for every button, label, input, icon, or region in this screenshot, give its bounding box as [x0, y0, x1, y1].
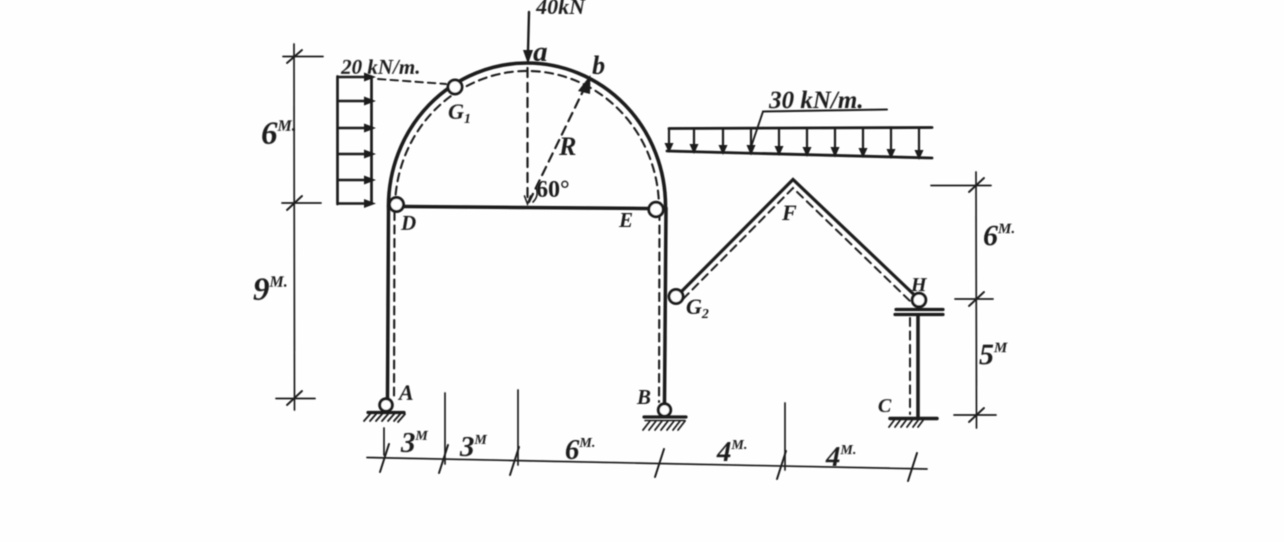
svg-text:E: E [618, 208, 633, 232]
svg-text:4M.: 4M. [825, 441, 856, 473]
svg-text:B: B [636, 385, 651, 409]
svg-text:b: b [592, 51, 605, 80]
svg-text:30 kN/m.: 30 kN/m. [768, 87, 863, 114]
svg-text:6M.: 6M. [983, 219, 1015, 252]
svg-text:a: a [533, 36, 548, 68]
svg-text:3M: 3M [400, 427, 429, 459]
svg-text:H: H [910, 274, 928, 296]
svg-text:F: F [781, 200, 797, 225]
svg-text:G2: G2 [686, 294, 709, 322]
svg-text:R: R [558, 132, 576, 161]
svg-text:40kN: 40kN [535, 0, 586, 19]
svg-text:5M: 5M [979, 338, 1008, 371]
svg-text:60°: 60° [536, 177, 570, 203]
svg-text:4M.: 4M. [716, 436, 747, 468]
svg-text:6M.: 6M. [261, 116, 296, 152]
svg-text:G1: G1 [448, 99, 471, 127]
svg-text:D: D [400, 211, 416, 235]
svg-text:20 kN/m.: 20 kN/m. [340, 55, 420, 79]
svg-text:C: C [878, 395, 892, 417]
svg-text:3M: 3M [459, 431, 488, 463]
svg-text:A: A [397, 380, 414, 405]
svg-text:9M.: 9M. [253, 272, 288, 308]
